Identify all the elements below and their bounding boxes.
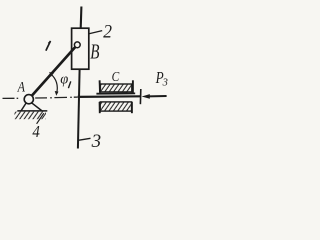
pin B (74, 42, 80, 48)
svg-text:3: 3 (91, 131, 102, 152)
wire: vertical rod 3, lower segment (78, 69, 80, 148)
leader line to label 2 (89, 31, 102, 34)
frame 4: support triangle (21, 103, 42, 111)
slider block 2 (72, 28, 89, 69)
ground line under support (17, 110, 47, 112)
piston end tick (139, 89, 141, 104)
svg-text:2: 2 (103, 21, 112, 42)
node A: revolute pivot circle (24, 95, 33, 104)
svg-text:3: 3 (162, 77, 168, 88)
angle phi1 arc with arrowheads (50, 74, 57, 94)
svg-text:φ: φ (60, 71, 68, 87)
leader line to label 4 (37, 113, 44, 124)
guide C: upper block (96, 80, 135, 93)
leader line to label 3 (79, 138, 91, 140)
label 1 (46, 41, 51, 51)
svg-text:C: C (112, 69, 120, 84)
wire: horizontal piston rod of link 3 (78, 95, 141, 98)
guide C: lower block (100, 102, 132, 113)
ground hatching (15, 112, 47, 120)
svg-text:4: 4 (32, 123, 39, 141)
wire: dash-dot centerline pivot to yoke (35, 96, 77, 99)
force P3 arrow (142, 94, 167, 99)
wire: vertical rod 3, upper segment (80, 7, 83, 29)
svg-text:B: B (90, 40, 99, 63)
link 1 (crank AB) (31, 46, 77, 97)
wire: dash-dot centerline left of pivot (3, 97, 19, 99)
svg-text:A: A (17, 78, 26, 95)
